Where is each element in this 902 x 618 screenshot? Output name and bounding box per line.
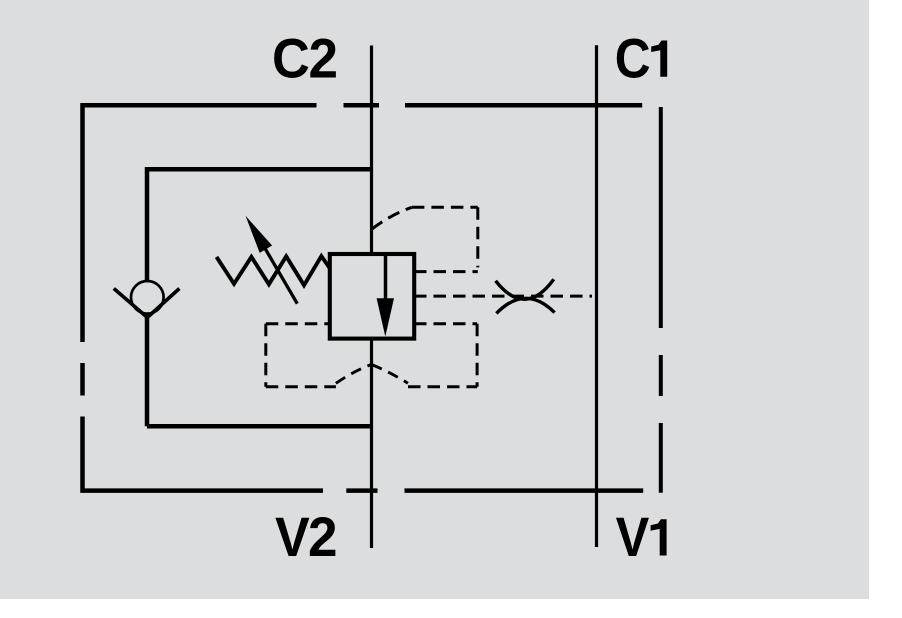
svg-text:V: V	[275, 506, 310, 568]
svg-text:2: 2	[309, 27, 339, 89]
svg-text:C: C	[615, 28, 651, 90]
svg-text:C: C	[272, 28, 310, 90]
svg-text:2: 2	[308, 506, 338, 568]
svg-text:V: V	[616, 507, 650, 569]
